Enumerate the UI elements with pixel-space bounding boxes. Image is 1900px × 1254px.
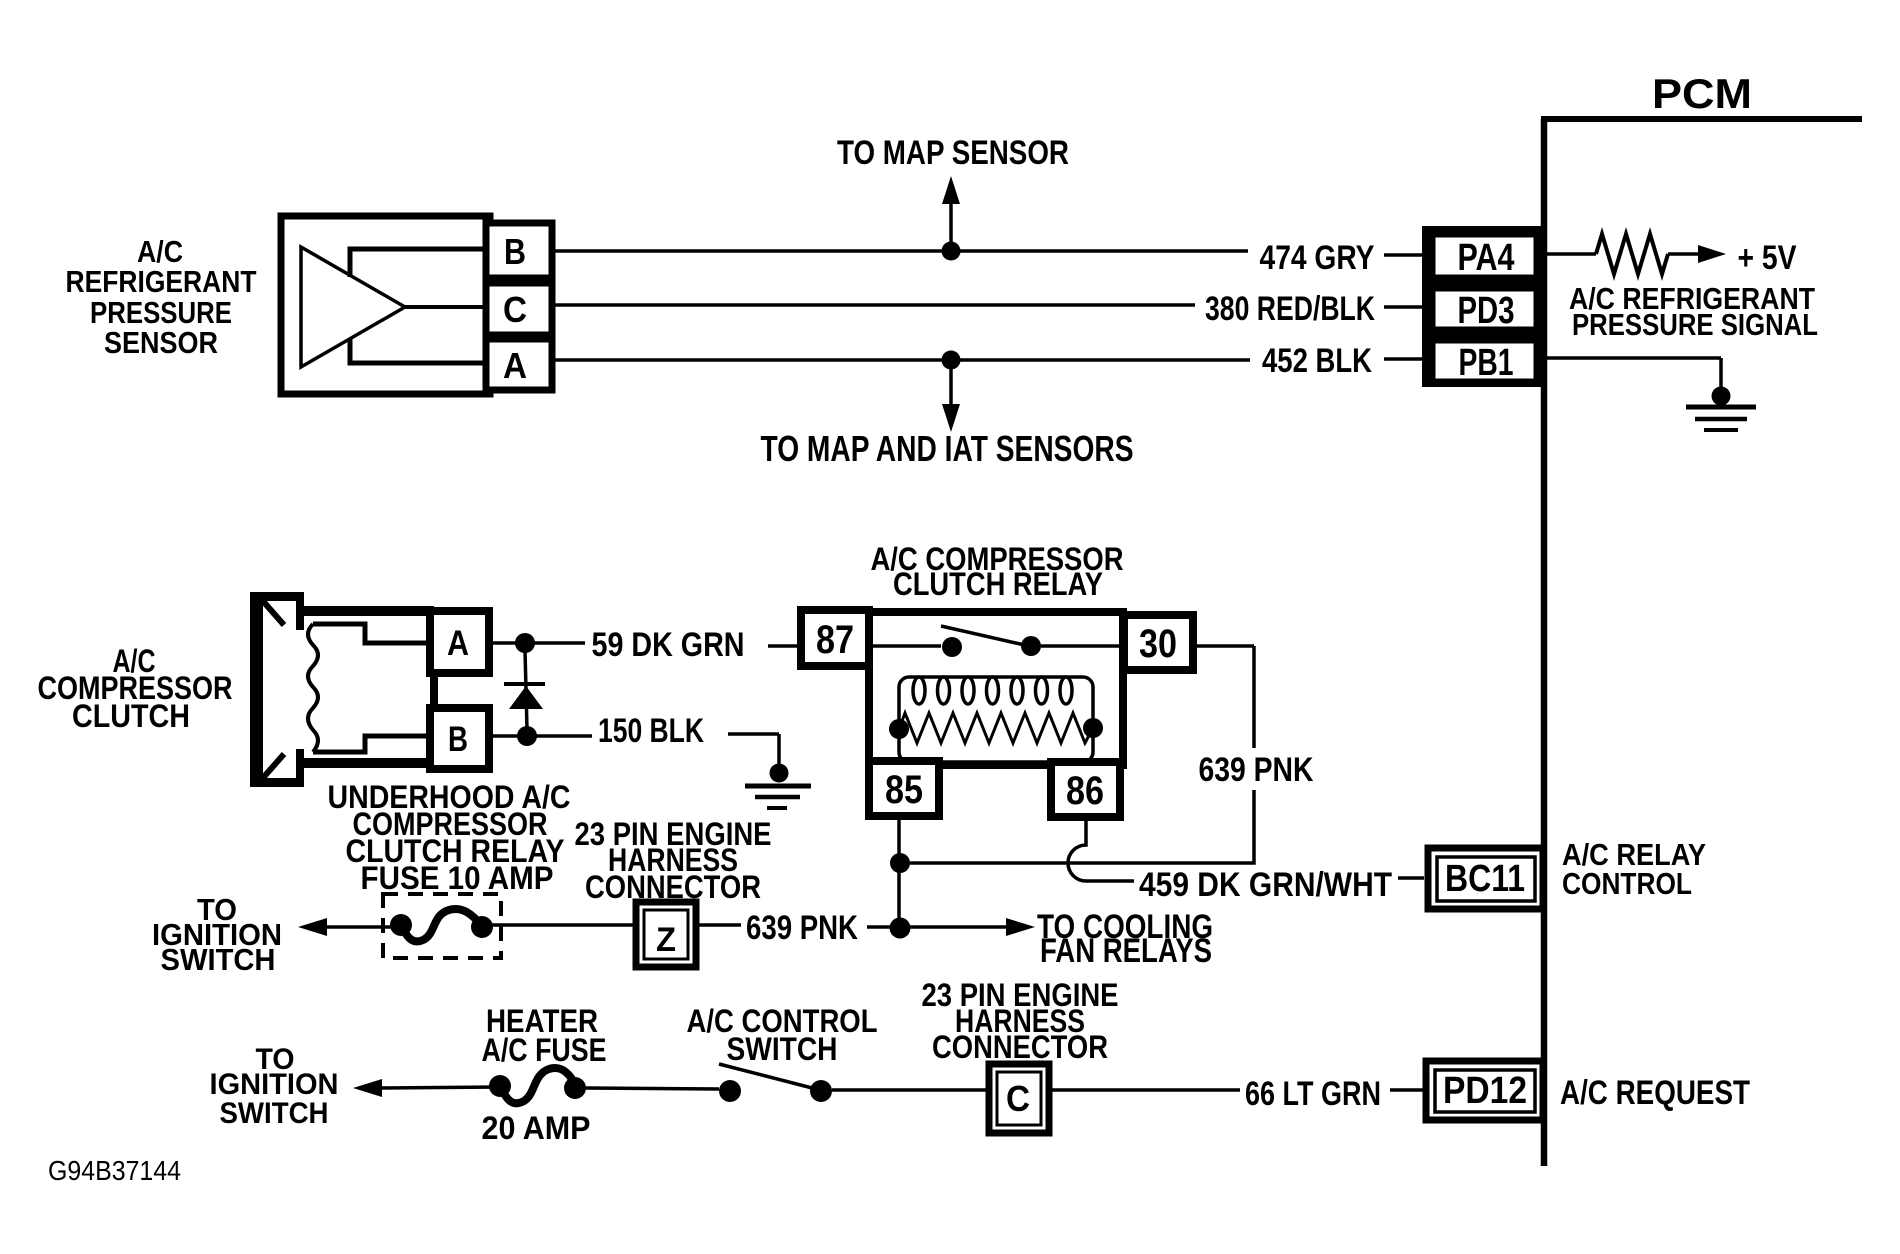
svg-text:A/C REQUEST: A/C REQUEST (1560, 1074, 1750, 1112)
label TO IGNITION SWITCH (middle) (152, 892, 282, 977)
node 639 PNK junction (890, 918, 911, 939)
label HEATER A/C FUSE (482, 1003, 607, 1068)
wire 66 LT GRN (1049, 1088, 1424, 1092)
svg-text:Z: Z (656, 921, 676, 959)
svg-text:A: A (447, 624, 469, 663)
wire PB1 to ground (1547, 358, 1721, 390)
PCM connector PD12 (1426, 1061, 1543, 1120)
svg-text:474 GRY: 474 GRY (1260, 239, 1375, 277)
svg-text:TO MAP SENSOR: TO MAP SENSOR (837, 134, 1069, 172)
arrow to MAP sensor (942, 176, 960, 251)
wire 380 RED/BLK from pin C to PD3 (552, 305, 1422, 307)
node on 150 BLK at diode cathode (517, 726, 537, 746)
wire 459 DK GRN/WHT from pin 86 with hop (1068, 817, 1424, 881)
switch S1 A/C control switch (719, 1064, 832, 1102)
sensor: A/C refrigerant pressure sensor body (281, 216, 490, 394)
svg-text:85: 85 (885, 768, 923, 812)
connector C (989, 1064, 1049, 1133)
relay switch node right (1021, 636, 1041, 656)
sensor pin C (486, 283, 552, 335)
label 23 PIN ENGINE HARNESS CONNECTOR (C) (922, 977, 1119, 1065)
relay switch node left (942, 637, 962, 657)
svg-text:BC11: BC11 (1445, 858, 1525, 900)
relay switch contact (869, 626, 1124, 646)
label A/C COMPRESSOR CLUTCH RELAY (871, 541, 1124, 602)
svg-text:86: 86 (1066, 769, 1104, 813)
svg-text:FUSE 10 AMP: FUSE 10 AMP (361, 860, 554, 896)
node on 452 BLK wire (942, 351, 961, 370)
svg-text:A/C FUSE: A/C FUSE (482, 1032, 607, 1068)
relay coil resistor (899, 713, 1093, 743)
relay coil node right (1083, 718, 1103, 738)
label A/C CONTROL SWITCH (687, 1003, 878, 1067)
svg-text:REFRIGERANT: REFRIGERANT (66, 264, 257, 299)
sensor label text (66, 234, 257, 360)
label UNDERHOOD A/C COMPRESSOR CLUTCH RELAY FUSE 10 AMP (328, 779, 571, 896)
label 23 PIN ENGINE HARNESS CONNECTOR (Z) (575, 816, 772, 905)
svg-text:639 PNK: 639 PNK (1199, 751, 1314, 789)
svg-text:PD3: PD3 (1458, 290, 1515, 332)
node on 474 GRY wire (942, 242, 961, 261)
svg-text:FAN RELAYS: FAN RELAYS (1040, 932, 1212, 970)
wire fuse to connector Z (482, 923, 636, 927)
svg-text:SWITCH: SWITCH (220, 1097, 329, 1130)
svg-text:SWITCH: SWITCH (727, 1031, 838, 1067)
resistor R1 pull-up to +5V (1547, 234, 1726, 274)
svg-text:PB1: PB1 (1459, 342, 1514, 384)
svg-text:SENSOR: SENSOR (104, 325, 218, 360)
svg-text:CONNECTOR: CONNECTOR (932, 1029, 1108, 1065)
wire 639 PNK from relay pin 30 (910, 646, 1254, 863)
relay coil bobbin (899, 677, 1093, 762)
relay pin 30 (1124, 615, 1193, 670)
svg-text:66 LT GRN: 66 LT GRN (1245, 1075, 1381, 1113)
svg-text:G94B37144: G94B37144 (48, 1155, 181, 1186)
sensor pin A (486, 339, 552, 390)
svg-text:B: B (448, 720, 468, 759)
svg-text:+ 5V: + 5V (1738, 239, 1797, 277)
sensor pin B (486, 223, 552, 278)
label TO COOLING FAN RELAYS (1037, 908, 1213, 970)
clutch pin A (430, 611, 489, 673)
svg-text:150 BLK: 150 BLK (598, 712, 704, 750)
svg-text:CONTROL: CONTROL (1562, 866, 1692, 901)
PCM connector BC11 (1428, 848, 1543, 909)
label A/C COMPRESSOR CLUTCH (38, 643, 233, 734)
svg-text:CLUTCH: CLUTCH (72, 698, 190, 734)
node on 59 DK GRN at diode anode (515, 633, 535, 653)
ground symbol at PCM PB1 (1686, 387, 1756, 431)
wire fuse to switch (586, 1088, 719, 1089)
relay K1 case (869, 612, 1123, 765)
svg-text:PA4: PA4 (1458, 237, 1515, 279)
fuse F2 20A element (489, 1068, 586, 1103)
svg-text:20 AMP: 20 AMP (482, 1110, 591, 1146)
wire 452 BLK from pin A to PB1 (552, 359, 1422, 360)
clutch pin B (430, 708, 489, 769)
svg-text:452 BLK: 452 BLK (1262, 342, 1372, 380)
clutch coil winding (308, 624, 430, 752)
svg-text:SWITCH: SWITCH (161, 942, 276, 977)
A/C compressor clutch symbol (250, 592, 438, 787)
connector Z (636, 902, 696, 967)
svg-text:B: B (504, 231, 526, 272)
svg-text:TO MAP AND IAT SENSORS: TO MAP AND IAT SENSORS (761, 428, 1134, 469)
svg-text:380 RED/BLK: 380 RED/BLK (1205, 290, 1375, 328)
relay coil node left (889, 719, 909, 739)
arrow to cooling fan relays (910, 918, 1035, 936)
label A/C REFRIGERANT PRESSURE SIGNAL (1569, 281, 1818, 342)
svg-text:459 DK GRN/WHT: 459 DK GRN/WHT (1139, 866, 1392, 904)
svg-text:A: A (503, 345, 527, 386)
diode D1 across clutch coil (504, 650, 545, 729)
node under pin 85 on 863 line (890, 853, 910, 873)
svg-text:C: C (1006, 1078, 1030, 1119)
wire from relay pin 85 down (897, 816, 901, 928)
PCM connector block PA4/PD3/PB1 outer (1422, 226, 1545, 387)
wire 639 PNK from Z (696, 925, 891, 927)
svg-text:30: 30 (1139, 622, 1177, 666)
svg-text:639 PNK: 639 PNK (746, 909, 858, 947)
fuse F1 element (390, 909, 493, 941)
relay pin 85 (869, 761, 939, 816)
ground symbol for 150 BLK (745, 764, 811, 809)
svg-text:PRESSURE SIGNAL: PRESSURE SIGNAL (1572, 307, 1818, 342)
connector pin PB1 (1434, 342, 1535, 384)
wire 150 BLK (489, 734, 779, 766)
relay pin 86 (1051, 762, 1120, 817)
svg-text:C: C (503, 289, 527, 330)
svg-text:87: 87 (816, 618, 854, 662)
svg-text:59 DK GRN: 59 DK GRN (592, 626, 745, 664)
relay pin 87 (801, 610, 869, 666)
label A/C RELAY CONTROL (1562, 837, 1706, 901)
wire 474 GRY from pin B to PA4 (552, 251, 1422, 255)
wire switch to connector C (832, 1088, 989, 1092)
arrow to ignition switch (bottom) (353, 1079, 500, 1097)
arrow to ignition switch (middle) (298, 918, 401, 936)
arrow to MAP and IAT sensors (942, 360, 960, 432)
PCM bus line (1541, 119, 1862, 1166)
fuse F1 10A dashed box (383, 894, 501, 958)
relay coil loops (913, 677, 1072, 704)
svg-text:CLUTCH RELAY: CLUTCH RELAY (893, 566, 1103, 602)
connector pin PD3 (1434, 290, 1535, 332)
wire 59 DK GRN (489, 643, 801, 646)
label TO IGNITION SWITCH (bottom) (210, 1043, 339, 1130)
svg-text:PCM: PCM (1652, 70, 1752, 117)
connector pin PA4 (1434, 236, 1535, 279)
svg-text:PD12: PD12 (1443, 1070, 1527, 1112)
